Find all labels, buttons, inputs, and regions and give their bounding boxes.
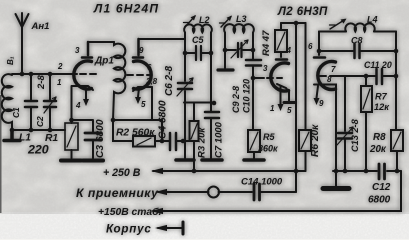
scan edge artifact [0,95,2,213]
